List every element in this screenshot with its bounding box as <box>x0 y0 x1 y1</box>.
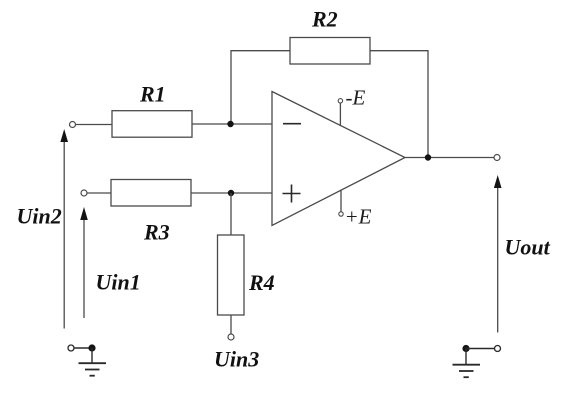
ground (left) <box>68 344 106 375</box>
wire <box>339 103 341 126</box>
svg-text:-E: -E <box>346 86 366 110</box>
resistor R1 <box>112 111 192 138</box>
svg-text:R4: R4 <box>248 270 275 295</box>
node +E terminal <box>339 212 343 216</box>
wire <box>231 51 290 124</box>
node inverting input junction <box>227 121 233 127</box>
wire <box>192 123 272 125</box>
node -E terminal <box>338 99 342 103</box>
wire <box>405 157 494 159</box>
wire <box>87 192 111 194</box>
wire Uout arrow <box>494 175 502 333</box>
node Uin1 terminal <box>81 190 87 196</box>
resistor R4 <box>218 235 245 315</box>
node Uin2 terminal <box>70 122 76 128</box>
wire <box>191 192 272 194</box>
svg-text:Uin1: Uin1 <box>96 270 141 295</box>
node Uout terminal <box>494 155 500 161</box>
svg-text:Uin3: Uin3 <box>214 347 259 372</box>
svg-text:Uout: Uout <box>505 235 551 260</box>
wire Uin1 arrow <box>80 207 88 318</box>
resistor R2 <box>290 38 370 65</box>
resistor R3 <box>111 180 191 207</box>
svg-text:R1: R1 <box>139 82 166 107</box>
pin minus <box>283 123 301 125</box>
svg-text:R3: R3 <box>143 220 170 245</box>
svg-text:R2: R2 <box>311 7 338 32</box>
wire <box>340 190 342 212</box>
node Uin3 terminal <box>228 334 234 340</box>
wire <box>76 124 113 126</box>
ground (right) <box>453 345 501 377</box>
svg-text:+E: +E <box>345 205 372 229</box>
node output junction <box>425 154 431 160</box>
wire <box>370 51 428 158</box>
svg-text:Uin2: Uin2 <box>17 204 62 229</box>
wire <box>230 315 232 334</box>
op-amp U1 <box>272 92 405 226</box>
node non-inverting input junction <box>228 190 234 196</box>
pin plus <box>283 185 301 203</box>
wire <box>230 193 232 235</box>
wire Uin2 arrow <box>60 129 68 329</box>
